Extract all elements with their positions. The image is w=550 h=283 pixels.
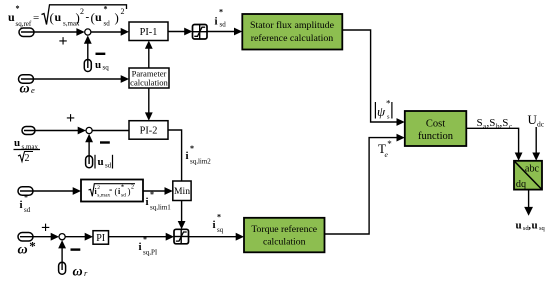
wire u_sq to sum1: [84, 35, 92, 68]
wire PI-1 to limiter1: [168, 28, 193, 36]
svg-text:2: 2: [25, 153, 30, 164]
svg-text:): ): [115, 10, 119, 25]
label i*_sd: [215, 8, 227, 29]
label i*_sq: [213, 213, 224, 235]
label u_s,max over sqrt 2: [14, 137, 41, 164]
svg-text:*: *: [24, 193, 28, 202]
block Parameter calculation: [129, 68, 169, 88]
wire omega_r to sum3: [58, 240, 66, 270]
wire PI to limiter2: [109, 233, 175, 241]
svg-text:reference calculation: reference calculation: [251, 33, 334, 44]
svg-text:dc: dc: [537, 120, 545, 129]
wire U_dc to abc-dq block: [532, 127, 540, 161]
svg-text:u: u: [8, 10, 15, 24]
svg-text:sq: sq: [103, 64, 110, 72]
label omega_r: [73, 265, 89, 280]
wire parameter calculation up to PI-1: [145, 41, 153, 69]
plus sign at sum1: [59, 33, 68, 50]
svg-text:abc: abc: [525, 164, 540, 175]
svg-text:*: *: [121, 185, 124, 191]
svg-text:sd: sd: [220, 21, 227, 29]
svg-text:*: *: [29, 239, 36, 254]
wire u_s,max to sum2: [24, 127, 86, 135]
label u_sq: [95, 59, 109, 72]
input terminal omega* (oval): [18, 233, 33, 242]
svg-text:*: *: [143, 235, 147, 244]
svg-text:2: 2: [97, 185, 100, 191]
wire sum1 to PI-1: [91, 28, 129, 36]
svg-text:*: *: [387, 139, 392, 149]
limiter block 1 (saturation): [193, 25, 208, 40]
svg-text:u: u: [55, 10, 62, 24]
terminal |u_sd| (oval): [86, 156, 93, 168]
svg-text:i: i: [213, 219, 216, 231]
minus sign at sum2: [100, 141, 110, 143]
label i*_sd input: [20, 193, 31, 214]
wire sum2 to PI-2: [92, 130, 129, 132]
svg-text:,S: ,S: [500, 117, 509, 129]
block PI-1: [129, 22, 168, 41]
svg-text:i: i: [139, 241, 142, 253]
label Sa,Sb,Sc: [477, 117, 513, 131]
svg-text:u: u: [95, 10, 102, 24]
svg-text:ψ: ψ: [377, 104, 386, 119]
wire Min to limiter2: [178, 201, 186, 230]
wire sum3 to PI: [65, 233, 93, 241]
minus sign at sum1: [96, 53, 106, 55]
wire omega_e to parameter calculation: [21, 75, 129, 83]
svg-text:i: i: [215, 16, 218, 28]
svg-text:c: c: [509, 123, 512, 131]
svg-text:ω: ω: [18, 243, 28, 258]
wire omega* to sum3: [20, 233, 59, 241]
svg-text:*: *: [190, 144, 194, 153]
svg-text:u: u: [14, 137, 20, 149]
svg-text:calculation: calculation: [130, 78, 168, 88]
svg-text:S: S: [477, 117, 483, 129]
svg-text:u: u: [95, 59, 101, 71]
svg-text:*: *: [104, 5, 108, 14]
svg-text:U: U: [528, 112, 538, 127]
label |psi*_s|: [375, 99, 392, 121]
svg-text:Torque reference: Torque reference: [251, 224, 317, 235]
label formula u*sq,ref = sqrt((u_s,max)^2-(u*_sd)^2): [8, 4, 127, 28]
svg-text:sd: sd: [104, 20, 111, 28]
svg-text:PI: PI: [96, 233, 105, 244]
svg-text:i: i: [20, 199, 23, 211]
svg-text:sq,lim1: sq,lim1: [150, 204, 171, 212]
svg-text:(: (: [50, 10, 54, 25]
summing junction 3: [59, 234, 65, 240]
wire cost function to abc-dq block: [466, 128, 522, 161]
limiter block 2 (saturation): [174, 229, 189, 244]
wire limiter2 to torque box: [189, 233, 245, 241]
svg-text:sd: sd: [24, 206, 31, 214]
wire parameter calculation down to PI-2: [145, 88, 153, 121]
terminal omega_r (oval): [59, 262, 66, 274]
input terminal i*_sd (oval): [18, 187, 33, 196]
svg-text:function: function: [418, 131, 454, 142]
svg-text:*: *: [16, 4, 20, 13]
wire sqrt block to Min: [143, 187, 173, 195]
svg-text:2: 2: [80, 7, 84, 16]
summing junction 2: [86, 127, 92, 133]
svg-text:sq: sq: [539, 225, 546, 232]
svg-text:sq,lim2: sq,lim2: [190, 158, 211, 166]
terminal u_sq (oval): [84, 60, 91, 72]
wire abc-dq output: [524, 190, 533, 216]
block PI-2: [129, 121, 168, 140]
svg-text:e: e: [31, 85, 35, 95]
label i*_sq,PI: [139, 235, 158, 257]
svg-text:*: *: [150, 190, 154, 199]
block sqrt(i2_s,max - (i*_sd)^2): [81, 180, 143, 202]
svg-text:i: i: [186, 150, 189, 162]
label U_dc: [528, 112, 545, 129]
minus sign at sum3: [71, 248, 81, 250]
svg-text:dq: dq: [516, 179, 526, 190]
wire PI-2 to Min: [168, 130, 182, 182]
svg-text:i: i: [146, 196, 149, 208]
input terminal u_s,max/sqrt2 (oval): [22, 127, 35, 135]
svg-text:sd: sd: [105, 162, 112, 170]
svg-text:*: *: [219, 8, 223, 17]
wire stator flux box to cost function: [342, 30, 405, 126]
wire input to sum1: [21, 28, 85, 36]
wire torque box to cost function: [325, 134, 405, 234]
summing junction 1: [85, 29, 91, 35]
svg-text:u: u: [532, 220, 538, 232]
plus sign at sum3: [41, 220, 50, 237]
input terminal omega_e (oval): [19, 75, 34, 84]
svg-text:ω: ω: [20, 82, 30, 97]
block Stator flux amplitude reference calculation: [242, 14, 342, 50]
svg-text:PI-2: PI-2: [140, 126, 158, 137]
label T*_e: [378, 139, 392, 159]
svg-text:Cost: Cost: [426, 119, 445, 130]
svg-text:-: -: [109, 185, 112, 196]
svg-text:2: 2: [131, 185, 134, 191]
input terminal u*sq,ref (oval): [19, 28, 34, 37]
svg-text:sq: sq: [217, 226, 224, 234]
svg-text:sq,PI: sq,PI: [143, 249, 158, 257]
label i*_sq,lim2: [186, 144, 212, 166]
plus sign at sum2: [66, 110, 75, 127]
svg-text:u: u: [516, 220, 522, 232]
svg-text:ω: ω: [73, 265, 83, 280]
svg-text:=: =: [33, 12, 39, 24]
label u_sd,u_sq: [516, 220, 546, 233]
block Cost function: [405, 111, 467, 146]
svg-text:Stator flux amplitude: Stator flux amplitude: [250, 20, 335, 31]
wire i*_sd to sqrt block: [20, 187, 81, 195]
svg-text:+: +: [41, 220, 50, 237]
svg-text:,S: ,S: [487, 117, 496, 129]
wire |u_sd| to sum2: [85, 134, 93, 164]
svg-text:2: 2: [121, 7, 125, 16]
label omega_e: [20, 82, 36, 97]
label i*_sq,lim1: [146, 190, 172, 212]
label omega*: [18, 239, 36, 258]
svg-text:sq,ref: sq,ref: [16, 20, 32, 28]
svg-text:-: -: [86, 11, 90, 23]
block PI: [93, 231, 109, 245]
block abc to dq transform: [514, 161, 542, 190]
svg-text:u: u: [98, 156, 104, 168]
block Torque reference calculation: [244, 218, 325, 253]
block Min: [173, 181, 191, 201]
svg-text:Min: Min: [174, 186, 190, 197]
svg-text:*: *: [386, 99, 391, 109]
label |u_sd|: [95, 155, 113, 170]
svg-text:calculation: calculation: [263, 237, 306, 248]
svg-text:PI-1: PI-1: [140, 27, 158, 38]
svg-text:+: +: [66, 110, 75, 127]
svg-text:+: +: [59, 33, 68, 50]
wire limiter1 to stator flux box: [207, 28, 242, 36]
svg-text:*: *: [217, 213, 221, 222]
svg-text:sd: sd: [121, 193, 126, 199]
